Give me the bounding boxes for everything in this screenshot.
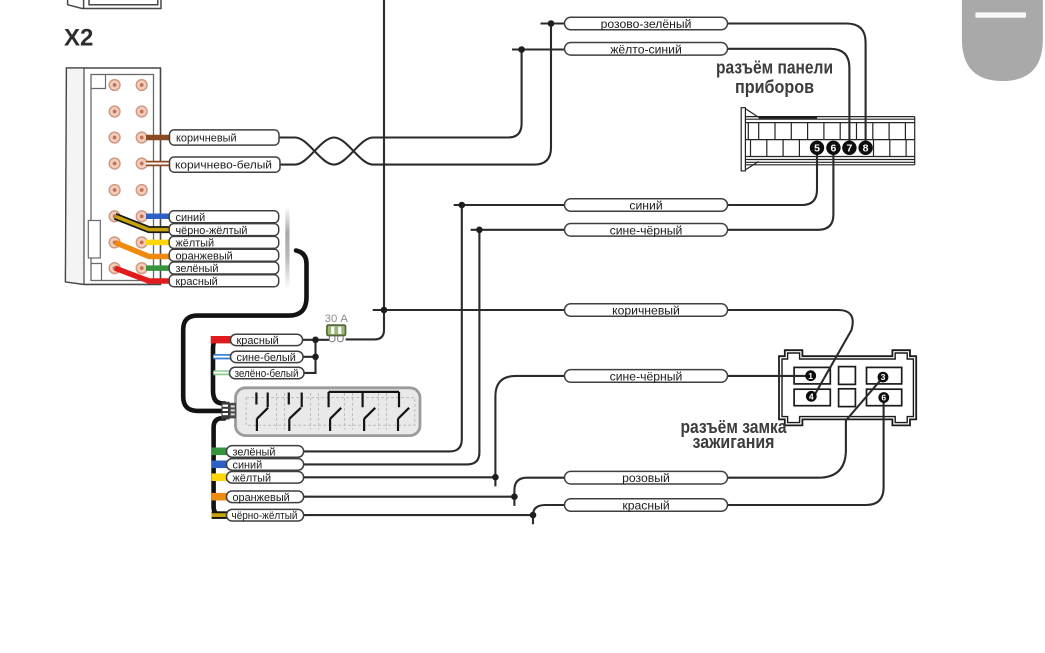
svg-text:разъём панели: разъём панели <box>716 57 833 78</box>
svg-text:жёлто-синий: жёлто-синий <box>610 42 682 56</box>
wire yellow-blue label left <box>512 48 565 50</box>
svg-text:7: 7 <box>846 143 852 155</box>
swatch red <box>211 336 232 343</box>
wire blue from pin <box>146 214 171 220</box>
label green-white <box>230 367 305 378</box>
label pills: X2 group <box>169 130 280 288</box>
relay block <box>236 388 421 436</box>
thick wire relay to bottom label group <box>214 418 227 515</box>
svg-text:сине-белый: сине-белый <box>237 352 296 364</box>
svg-text:сине-чёрный: сине-чёрный <box>610 223 683 237</box>
swatch blue <box>212 461 227 469</box>
svg-text:синий: синий <box>629 199 662 213</box>
label black-yellow bottom <box>227 509 304 521</box>
wire pink to pin 3 <box>728 378 883 478</box>
wire main vertical to fuse <box>346 0 384 339</box>
label blue <box>169 211 279 223</box>
wire brown from pin <box>146 135 171 141</box>
junction dots <box>312 20 554 518</box>
svg-text:коричневый: коричневый <box>612 304 680 318</box>
wire yellow bottom <box>304 477 496 486</box>
svg-text:8: 8 <box>863 143 869 155</box>
swatch green-white <box>213 370 231 375</box>
svg-text:красный: красный <box>237 335 279 347</box>
wire blue-black label left <box>471 229 565 231</box>
label yellow <box>169 236 279 248</box>
label pills: fuse group <box>211 334 304 380</box>
label orange <box>169 249 279 261</box>
swatch yellow <box>212 473 227 481</box>
svg-text:синий: синий <box>176 212 206 224</box>
svg-text:жёлтый: жёлтый <box>233 472 272 484</box>
wire red to pin 6 <box>728 403 884 506</box>
wire green-label to blue junction <box>304 205 462 451</box>
wire blue label left <box>454 204 565 206</box>
svg-text:1: 1 <box>808 371 813 381</box>
label blue bottom <box>227 459 304 471</box>
X2 pins <box>109 80 147 274</box>
relay connector comb <box>222 402 237 420</box>
wire pink-green label left <box>541 22 565 24</box>
svg-text:чёрно-жёлтый: чёрно-жёлтый <box>232 510 298 522</box>
wire blue-black2 label left down <box>495 376 564 477</box>
thick wire red-swatch to relay <box>213 340 225 404</box>
wire twisted pair brown <box>279 50 522 165</box>
label brown-white <box>170 157 281 172</box>
swatch blue-white <box>213 354 233 359</box>
svg-text:синий: синий <box>233 459 263 471</box>
ignition lock connector <box>779 350 916 425</box>
label red mid <box>565 499 728 512</box>
connector stub (cut off at top) <box>68 0 161 9</box>
label green bottom <box>227 446 304 458</box>
panel connector pins 5 6 7 8 <box>810 141 873 155</box>
wire blue-label to blue-black junction <box>304 230 480 465</box>
label red <box>231 334 303 345</box>
svg-text:зелёный: зелёный <box>233 446 276 458</box>
label green <box>169 262 279 274</box>
connector X2 body <box>66 68 161 284</box>
label blue-black mid <box>565 224 728 237</box>
svg-text:зажигания: зажигания <box>693 431 775 452</box>
wire black-yellow bottom <box>304 515 533 524</box>
wire pink label left <box>514 478 564 497</box>
label brown <box>170 130 280 145</box>
wire brown to pin 4 <box>728 310 853 396</box>
svg-text:4: 4 <box>809 391 814 401</box>
swatch black-yellow <box>212 511 227 519</box>
label blue-white <box>231 351 304 362</box>
wire green from pin <box>146 265 171 271</box>
svg-text:коричневый: коричневый <box>176 133 237 145</box>
wire brown-white from pin <box>146 161 171 167</box>
relay switch contacts <box>256 392 409 431</box>
label pink-green <box>565 17 728 30</box>
wire red from pin <box>115 268 171 281</box>
label pink <box>565 471 728 484</box>
svg-text:чёрно-жёлтый: чёрно-жёлтый <box>176 225 248 237</box>
wire pink-green to pin 8 <box>728 24 866 143</box>
label yellow bottom <box>227 472 304 484</box>
label yellow-blue <box>565 43 728 56</box>
scroll tab top-right <box>962 0 1043 81</box>
wire red label left <box>533 505 565 515</box>
swatch orange <box>212 493 227 501</box>
wire blue-black to pin 6 <box>728 153 834 230</box>
label pills: bottom group <box>212 446 304 523</box>
svg-text:коричнево-белый: коричнево-белый <box>175 160 272 172</box>
panel connector strip <box>741 108 915 171</box>
svg-text:красный: красный <box>176 276 218 288</box>
svg-text:6: 6 <box>881 393 886 403</box>
label pills: middle column <box>565 17 728 513</box>
svg-text:5: 5 <box>814 143 820 155</box>
wire orange bottom <box>304 497 515 506</box>
svg-text:зелёный: зелёный <box>176 263 219 275</box>
svg-text:зелёно-белый: зелёно-белый <box>235 368 299 380</box>
svg-text:оранжевый: оранжевый <box>176 250 233 262</box>
wire orange from pin <box>115 242 171 256</box>
wire black-yellow from pin <box>115 216 171 229</box>
wire brown horizontal <box>373 309 728 311</box>
svg-text:розовый: розовый <box>622 471 670 485</box>
ignition pins 1 4 3 6 <box>805 370 889 403</box>
label red <box>169 275 279 287</box>
wire blue-black2 to pin 1 <box>728 375 807 377</box>
label orange bottom <box>227 491 304 503</box>
thick bundle wire X2 to fuse-label group <box>183 251 306 411</box>
fading cable bundle <box>285 209 289 287</box>
wire blue to pin 5 <box>728 153 818 205</box>
label blue-black 2 <box>565 370 728 383</box>
wire yellow from pin <box>146 240 171 246</box>
label brown mid <box>565 304 728 317</box>
label blue mid <box>565 199 728 212</box>
svg-text:3: 3 <box>881 372 886 382</box>
svg-text:сине-чёрный: сине-чёрный <box>610 369 683 383</box>
svg-text:розово-зелёный: розово-зелёный <box>601 17 692 31</box>
svg-text:жёлтый: жёлтый <box>176 238 215 250</box>
svg-text:6: 6 <box>830 143 836 155</box>
label black-yellow <box>169 224 279 236</box>
svg-text:30 А: 30 А <box>325 313 349 325</box>
fuse 30A <box>325 313 349 342</box>
svg-text:красный: красный <box>622 499 669 513</box>
svg-text:X2: X2 <box>64 25 93 52</box>
wire twisted pair brown-white <box>279 24 551 165</box>
svg-text:оранжевый: оранжевый <box>233 492 290 504</box>
wire junction column blue-white green-white <box>302 340 316 373</box>
swatch green <box>212 448 227 456</box>
wire yellow-blue to pin 7 <box>728 49 850 142</box>
wire fuse to red label <box>302 339 329 341</box>
svg-text:приборов: приборов <box>735 76 814 97</box>
